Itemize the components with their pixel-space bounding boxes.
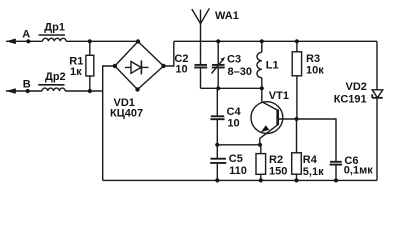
resistor R3: [292, 41, 301, 119]
zener diode VD2: [372, 41, 383, 180]
variable capacitor C3: [212, 41, 226, 88]
junction dot R2 bottom: [259, 178, 263, 182]
svg-text:110: 110: [229, 165, 247, 177]
svg-text:10к: 10к: [306, 64, 324, 76]
bridge rectifier VD1: [113, 39, 166, 91]
transistor VT1: [251, 88, 297, 145]
svg-text:C4: C4: [227, 106, 242, 118]
junction dot C3 top: [216, 39, 220, 43]
svg-text:10: 10: [175, 63, 187, 75]
inductor Dr1: [39, 35, 67, 41]
svg-text:C5: C5: [229, 153, 243, 165]
junction dot L1 bottom / collector: [260, 86, 264, 90]
junction dot base node: [295, 117, 299, 121]
inductor L1: [257, 41, 262, 88]
junction dot emitter/R2: [258, 143, 262, 147]
capacitor C2: [194, 41, 207, 88]
capacitor C6: [330, 162, 343, 181]
antenna WA1: [192, 8, 210, 41]
wire B-line: [6, 90, 42, 92]
inductor Dr2: [38, 85, 65, 91]
capacitor C5: [210, 145, 226, 181]
junction dot C5 bottom: [215, 178, 219, 182]
node A: [6, 39, 16, 45]
wire bridge right corner up to top rail: [164, 41, 174, 66]
resistor R2: [256, 145, 266, 181]
svg-text:150: 150: [269, 165, 287, 177]
junction dot C4 branch: [216, 86, 220, 90]
wire B-line from Dr2 to vertical: [65, 90, 103, 92]
junction dot C5 top: [215, 143, 219, 147]
svg-text:WA1: WA1: [215, 10, 239, 22]
svg-text:КЦ407: КЦ407: [110, 108, 143, 120]
svg-text:Др1: Др1: [44, 21, 65, 33]
wire top rail (plus rail): [174, 40, 377, 42]
svg-text:В: В: [23, 78, 31, 90]
svg-text:0,1мк: 0,1мк: [344, 165, 373, 177]
wire tank node line: [201, 87, 262, 89]
junction dot on B wire: [26, 89, 30, 93]
junction dot R1 top: [88, 39, 92, 43]
svg-text:C3: C3: [227, 53, 241, 65]
wire emitter node line: [217, 144, 260, 146]
svg-text:А: А: [22, 28, 30, 40]
junction dot R3 top: [295, 39, 299, 43]
svg-text:VT1: VT1: [269, 90, 289, 102]
svg-text:1к: 1к: [70, 66, 82, 78]
resistor R4: [292, 119, 302, 180]
junction dot R4 bottom: [294, 178, 298, 182]
svg-text:5,1к: 5,1к: [303, 166, 324, 178]
svg-text:R3: R3: [306, 53, 320, 65]
wire left vertical (B to bottom rail and bridge left): [103, 66, 115, 180]
junction dot L1 top: [260, 39, 264, 43]
resistor R1: [86, 41, 94, 91]
junction dot R1 bottom: [88, 89, 92, 93]
svg-text:8–30: 8–30: [228, 66, 252, 78]
wire A-line from Dr1 to bridge top: [66, 40, 138, 42]
wire bottom rail: [103, 179, 377, 181]
junction dot C6 bottom: [334, 178, 338, 182]
svg-text:10: 10: [227, 118, 239, 130]
svg-text:VD2: VD2: [346, 81, 367, 93]
wire A-line: [6, 40, 43, 42]
svg-text:R4: R4: [303, 154, 318, 166]
junction dot on A wire: [26, 39, 30, 43]
svg-text:КС191: КС191: [334, 93, 367, 105]
wire base node to C6: [297, 119, 336, 161]
svg-text:L1: L1: [266, 59, 279, 71]
svg-text:Др2: Др2: [45, 71, 66, 83]
node B: [6, 88, 16, 94]
capacitor C4: [210, 88, 224, 145]
svg-text:R2: R2: [269, 154, 283, 166]
